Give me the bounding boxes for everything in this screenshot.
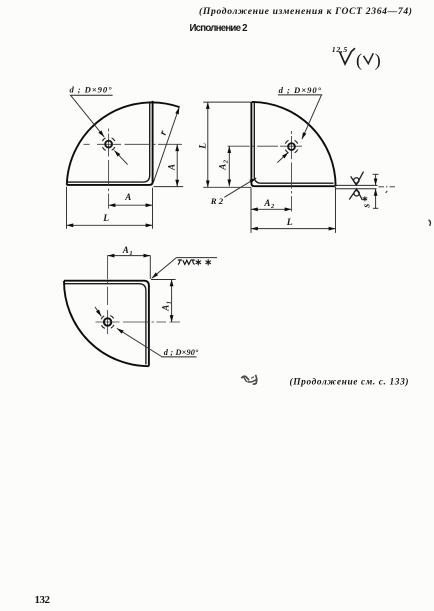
fig3 asterisk star 1 xyxy=(196,259,201,265)
roughness symbol below edge (mirrored) xyxy=(349,189,362,200)
fig1 outer outline (right edge, bottom edge, corner) xyxy=(67,101,153,185)
fig1 dimension A (bottom) xyxy=(109,204,153,206)
fig3 dimension A1 (top) xyxy=(108,255,151,257)
fig2 label underline xyxy=(278,94,322,96)
fig3 second leader to countersink xyxy=(95,307,101,316)
svg-text:(Продолжение изменения к ГОСТ: (Продолжение изменения к ГОСТ 2364—74) xyxy=(199,6,412,17)
fig2 hole vertical centerline xyxy=(291,131,293,212)
fig1 hole horizontal centerline xyxy=(84,143,183,145)
svg-text:Исполнение 2: Исполнение 2 xyxy=(190,23,248,34)
svg-text:L: L xyxy=(286,218,293,228)
fig3 asterisk star 2 xyxy=(206,259,211,265)
svg-text:A: A xyxy=(122,245,129,255)
surface roughness mark 12,5 with check at page top right xyxy=(332,45,381,71)
edge centerline continuation xyxy=(379,186,397,188)
svg-text:A: A xyxy=(263,198,270,208)
fig2 leader R2 to inner corner xyxy=(224,178,256,197)
thickness dimension s* upper arrow xyxy=(375,174,377,185)
edge top surface line xyxy=(335,184,377,186)
fig3 leader to hole xyxy=(117,328,162,356)
fig1 left extension line xyxy=(66,187,68,229)
fig2 outer outline (left edge, bottom edge) xyxy=(251,102,335,186)
label * asterisk star xyxy=(363,196,368,201)
svg-text:1: 1 xyxy=(165,301,172,304)
thickness dimension s* lower arrow xyxy=(375,189,377,209)
fig3 right extension for A1 top xyxy=(149,255,151,279)
svg-text:s: s xyxy=(361,204,372,209)
fig1 hole d (solid circle) xyxy=(105,141,112,148)
lower arrow crossbar xyxy=(373,207,378,209)
fig2 dimension A2 (bottom) xyxy=(251,208,292,210)
fig1 inner flange line xyxy=(67,101,149,182)
fig1 hole vertical centerline xyxy=(108,129,110,209)
svg-text:d ; D×90°: d ; D×90° xyxy=(164,348,199,357)
svg-text:d ; D×90°: d ; D×90° xyxy=(70,84,113,94)
comma artifact at right margin xyxy=(429,220,431,226)
fig2 right vertical extension xyxy=(335,187,337,233)
fig3 hole d (ring) xyxy=(104,318,111,325)
small tick mark xyxy=(386,191,388,193)
ink smudge artifact xyxy=(241,375,257,384)
svg-text:A: A xyxy=(218,164,228,171)
fig2 countersink D (dashed circle) xyxy=(285,140,299,154)
fig3 extension line at corner (top of A1 right) xyxy=(151,279,176,281)
fig2 inner flange line xyxy=(254,102,333,183)
fig2 leader to countersink xyxy=(302,95,321,139)
fig2 bottom-left extension line xyxy=(203,186,251,188)
svg-text:L: L xyxy=(198,143,208,150)
fig1 right extension line xyxy=(152,188,154,229)
fig2 hole horizontal centerline xyxy=(228,145,304,147)
fig2 hole d (solid circle) xyxy=(288,143,295,150)
fig2 dimension L (vertical left) xyxy=(207,102,209,187)
upper arrow crossbar xyxy=(373,173,379,175)
fig2 label A2 rotated xyxy=(218,159,230,171)
fig3 symbol shelf line xyxy=(176,257,217,259)
roughness symbol (no material removal) above edge xyxy=(351,172,364,186)
fig2 second leader to hole xyxy=(277,152,288,162)
fig1 leader to countersink xyxy=(71,96,104,137)
svg-text:A: A xyxy=(124,192,131,202)
svg-text:R 2: R 2 xyxy=(210,196,224,206)
fig3 inner flange line xyxy=(65,284,146,365)
fig1 dimension A (vertical right) xyxy=(176,144,178,186)
fig3 label A1 rotated xyxy=(160,301,172,312)
label s rotated xyxy=(361,204,372,209)
fig2 top extension line xyxy=(203,101,251,103)
svg-text:L: L xyxy=(102,214,109,224)
fig1 label underline / shelf xyxy=(70,94,113,96)
svg-text:A: A xyxy=(160,305,170,312)
fig2 outer arc xyxy=(252,102,336,186)
svg-text:(Продолжение см. с. 133): (Продолжение см. с. 133) xyxy=(290,376,409,387)
fig3 dimension A1 (vertical right) xyxy=(171,280,173,323)
fig1 radius dimension r line xyxy=(153,107,179,183)
edge bottom surface line xyxy=(335,188,377,190)
fig1 outer arc xyxy=(67,102,180,184)
fig2 left vertical extension (bottom dims) xyxy=(250,187,252,233)
fig3 edge symbol marks under shelf xyxy=(178,260,195,265)
fig3 hole vertical centerline xyxy=(107,255,109,334)
svg-text:(: ( xyxy=(356,50,362,71)
svg-text:1: 1 xyxy=(129,250,132,257)
fig3 outer arc xyxy=(64,281,149,366)
fig2 dimension A2 (vertical inner) xyxy=(228,146,230,186)
fig1 dimension L xyxy=(67,224,153,226)
fig3 corner leader with edge symbol xyxy=(152,258,177,279)
svg-text:A: A xyxy=(166,164,176,171)
fig2 dimension L (bottom) xyxy=(251,228,336,230)
svg-text:): ) xyxy=(375,50,381,71)
fig1 countersink D (dashed circle) xyxy=(102,137,116,151)
fig3 countersink D (dashed circle) xyxy=(101,315,115,329)
svg-text:132: 132 xyxy=(35,594,51,606)
fig3 label underline xyxy=(161,356,196,358)
svg-text:d ; D×90°: d ; D×90° xyxy=(279,85,322,95)
fig3 hole horizontal centerline xyxy=(96,321,181,323)
fig1 second leader to hole xyxy=(114,150,127,164)
fig1 bottom edge extension to the right xyxy=(154,186,184,188)
fig3 outer outline (top edge, right edge) xyxy=(64,281,149,367)
